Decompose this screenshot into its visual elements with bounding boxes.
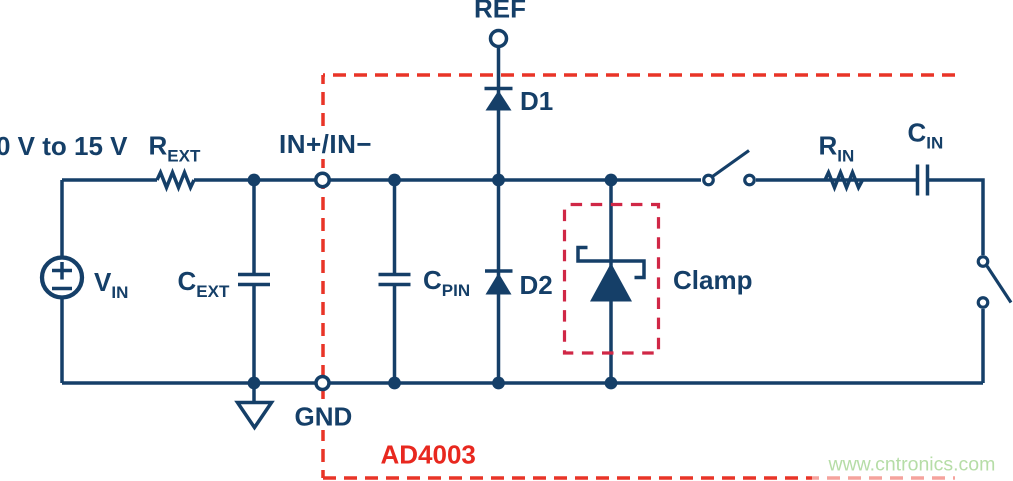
svg-text:REF: REF [474,0,526,24]
svg-text:www.cntronics.com: www.cntronics.com [828,454,996,476]
svg-text:CIN: CIN [908,118,944,153]
svg-text:0 V to 15 V: 0 V to 15 V [0,131,128,161]
svg-text:REXT: REXT [149,131,201,166]
svg-text:VIN: VIN [94,267,128,302]
svg-text:D2: D2 [520,270,553,300]
svg-text:GND: GND [295,402,353,432]
svg-text:AD4003: AD4003 [381,440,476,470]
svg-text:CEXT: CEXT [178,266,230,301]
svg-text:Clamp: Clamp [673,265,752,295]
svg-text:IN+/IN−: IN+/IN− [279,129,372,159]
svg-text:CPIN: CPIN [423,265,470,300]
svg-text:RIN: RIN [819,131,855,166]
svg-text:D1: D1 [520,86,553,116]
